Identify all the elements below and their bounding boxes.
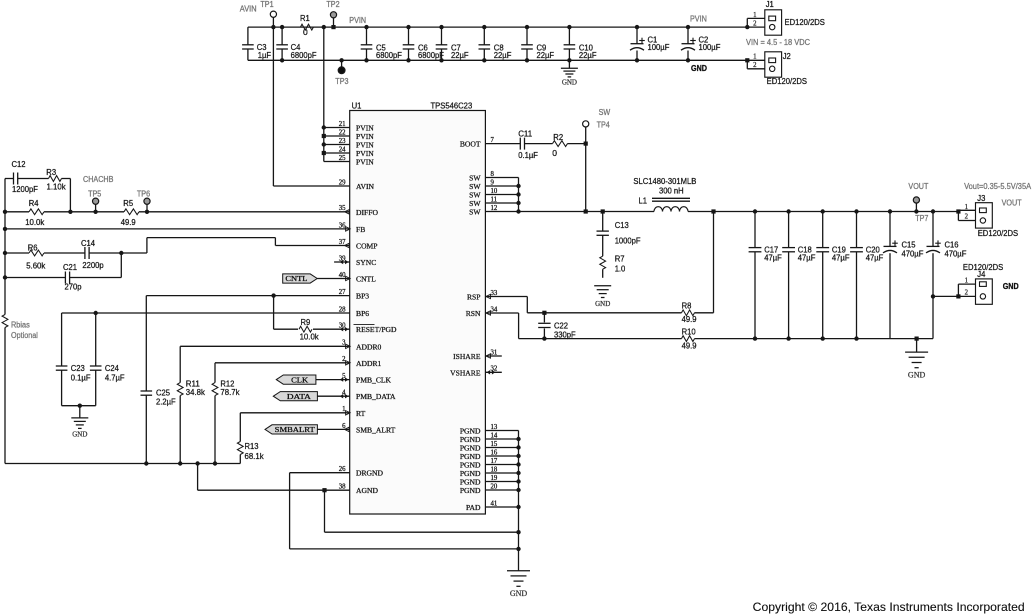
svg-text:2.2µF: 2.2µF [156, 397, 176, 407]
pin 31 ISHARE label [453, 349, 497, 361]
label SW [599, 108, 611, 117]
svg-text:R3: R3 [46, 167, 56, 177]
pin 16 PGND label [460, 449, 498, 461]
svg-text:R13: R13 [245, 441, 259, 451]
pin 24 PVIN label [339, 146, 375, 158]
wire DIFFO row [5, 210, 350, 214]
svg-text:22: 22 [339, 129, 346, 136]
svg-text:22µF: 22µF [579, 50, 597, 60]
wire SW rail [519, 211, 959, 213]
ground GND below R7 [594, 286, 611, 308]
resistor R9 [274, 296, 350, 342]
svg-text:C12: C12 [12, 159, 26, 169]
pin 15 PGND label [460, 441, 498, 453]
pin 11 SW label [469, 196, 497, 208]
pin output arrow [345, 427, 350, 431]
svg-text:PVIN: PVIN [349, 16, 366, 25]
svg-text:RT: RT [356, 409, 366, 418]
svg-text:100µF: 100µF [648, 42, 670, 52]
wire BP6 row [62, 311, 350, 366]
svg-text:J3: J3 [977, 193, 985, 203]
svg-text:2: 2 [753, 62, 757, 69]
capacitor C13 [597, 220, 641, 246]
pin 8 SW label [469, 171, 494, 183]
capacitor C8 [479, 25, 512, 63]
net flag DATA [273, 392, 349, 401]
capacitor C19 [816, 209, 849, 340]
svg-text:PGND: PGND [460, 486, 481, 495]
wire J3 pins [956, 209, 975, 220]
svg-text:Optional: Optional [11, 331, 38, 340]
wire C4 branch [280, 25, 284, 63]
pin 3 ADDR0 label [342, 340, 381, 352]
svg-text:8: 8 [491, 171, 495, 178]
svg-text:49.9: 49.9 [682, 340, 697, 350]
capacitor C4 [276, 42, 316, 60]
svg-text:Rbias: Rbias [11, 321, 30, 330]
svg-text:6800pF: 6800pF [376, 50, 402, 60]
inductor L1 [633, 176, 696, 211]
label TP7 [915, 214, 929, 223]
pin arrow RSP [486, 294, 491, 298]
svg-text:470µF: 470µF [945, 249, 967, 259]
svg-text:DRGND: DRGND [356, 469, 384, 478]
resistor R7 [600, 253, 626, 273]
capacitor C21 [63, 262, 82, 291]
test point TP3 [338, 58, 345, 74]
svg-text:300 nH: 300 nH [659, 186, 684, 196]
svg-text:22µF: 22µF [451, 50, 469, 60]
svg-text:470µF: 470µF [902, 249, 924, 259]
capacitor C10 [564, 25, 597, 63]
svg-text:TP3: TP3 [335, 77, 349, 86]
label VIN = 4.5 - 18 VDC [746, 38, 810, 47]
svg-text:VIN = 4.5 - 18 VDC: VIN = 4.5 - 18 VDC [746, 38, 810, 47]
svg-text:25: 25 [339, 155, 346, 162]
svg-text:J4: J4 [977, 269, 985, 279]
label J3 [977, 193, 985, 203]
svg-text:22µF: 22µF [537, 50, 555, 60]
svg-text:PMB_CLK: PMB_CLK [356, 376, 392, 385]
label Vout spec [964, 182, 1032, 191]
svg-text:RSP: RSP [467, 293, 481, 302]
svg-text:1: 1 [753, 12, 756, 19]
pin 9 SW label [469, 179, 494, 191]
svg-text:47µF: 47µF [832, 253, 850, 263]
pin 39 SYNC label [339, 255, 377, 267]
pin 33 RSP label [467, 290, 498, 302]
label TP4 [597, 121, 611, 130]
pin 6 SMB_ALRT label [342, 423, 395, 435]
capacitor C17 [749, 209, 782, 340]
pin 34 RSN label [466, 306, 498, 318]
ground GND main [507, 571, 530, 598]
pin 23 PVIN label [339, 138, 375, 150]
svg-text:2: 2 [965, 289, 969, 296]
label GND J4 [1003, 282, 1019, 291]
test point TP6 [144, 198, 150, 212]
svg-text:GND: GND [1003, 282, 1019, 291]
svg-text:R7: R7 [615, 253, 625, 263]
pin 28 BP6 label [339, 306, 370, 318]
svg-text:23: 23 [339, 138, 346, 145]
pin bidir arrow [340, 377, 349, 381]
svg-text:1.0: 1.0 [615, 263, 626, 273]
svg-text:CNTL: CNTL [356, 275, 376, 284]
svg-text:C24: C24 [105, 363, 119, 373]
label TP1 [260, 0, 274, 9]
pin 31 ISHARE stub [485, 355, 501, 357]
resistor R11 [177, 378, 205, 463]
capacitor C22 [538, 313, 576, 340]
svg-text:ADDR1: ADDR1 [356, 359, 382, 368]
wire left vertical rail [3, 179, 7, 464]
pin number 1 J2 [753, 54, 756, 61]
svg-text:VOUT: VOUT [908, 182, 928, 191]
resistor R3 [46, 167, 66, 192]
svg-text:10.0k: 10.0k [300, 331, 320, 341]
svg-text:TP5: TP5 [88, 190, 102, 199]
svg-text:1.10k: 1.10k [47, 182, 67, 192]
pin number 2 J2 [753, 62, 757, 69]
pin number 1 J4 [965, 278, 968, 285]
svg-text:7: 7 [491, 137, 495, 144]
svg-text:TP6: TP6 [137, 190, 151, 199]
svg-text:12: 12 [491, 205, 498, 212]
svg-text:11: 11 [491, 196, 498, 203]
svg-text:RESET/PGD: RESET/PGD [356, 325, 397, 334]
pin arrow RSN [486, 311, 491, 315]
svg-text:TP1: TP1 [260, 0, 274, 9]
capacitor C16 (polarized) [926, 209, 966, 338]
wire PVIN bus [322, 25, 350, 162]
svg-text:DIFFO: DIFFO [356, 208, 378, 217]
svg-text:R1: R1 [300, 13, 310, 23]
wire ADDR0 row [180, 346, 350, 382]
svg-text:SYNC: SYNC [356, 258, 376, 267]
svg-text:Copyright © 2016, Texas Instru: Copyright © 2016, Texas Instruments Inco… [753, 601, 1025, 614]
pin number 2 J1 [753, 20, 757, 27]
pin input arrow [346, 361, 351, 365]
svg-text:SMB_ALRT: SMB_ALRT [356, 425, 396, 434]
svg-text:22µF: 22µF [494, 50, 512, 60]
svg-text:RSN: RSN [466, 309, 481, 318]
svg-text:ED120/2DS: ED120/2DS [978, 228, 1019, 238]
svg-text:COMP: COMP [356, 242, 378, 251]
pin input arrow [346, 276, 351, 280]
pin number 1 J1 [753, 12, 756, 19]
svg-text:BP6: BP6 [356, 309, 369, 318]
wire AVIN/PVIN top input rail [248, 26, 765, 28]
svg-text:47µF: 47µF [764, 253, 782, 263]
svg-text:47µF: 47µF [866, 253, 884, 263]
pin arrow VSHARE [487, 370, 496, 374]
svg-text:BP3: BP3 [356, 292, 369, 301]
svg-text:Vout=0.35-5.5V/35A: Vout=0.35-5.5V/35A [964, 182, 1032, 191]
wire BOOT pin 7 [485, 143, 520, 145]
pin 25 PVIN label [339, 155, 375, 167]
connector J1 [765, 10, 782, 35]
pin 38 AGND label [339, 484, 379, 496]
label U1 [352, 101, 362, 111]
svg-text:FB: FB [356, 225, 365, 234]
ground input GND symbol [561, 60, 578, 86]
pin input arrow [346, 411, 351, 415]
wire C12 R3 row [5, 179, 70, 212]
pin bidir arrow [340, 260, 349, 264]
pin 4 PMB_DATA label [342, 390, 396, 402]
pin 39 SYNC stub [334, 261, 350, 263]
wire FB row [5, 228, 350, 230]
svg-text:ADDR0: ADDR0 [356, 342, 382, 351]
svg-text:U1: U1 [352, 101, 362, 111]
pin 19 PGND label [460, 475, 498, 487]
pin 26 DRGND label [339, 466, 384, 478]
resistor R12 [212, 378, 240, 463]
resistor R6 [26, 242, 46, 270]
wire GND bottom input rail [248, 59, 765, 61]
pin 37 COMP label [339, 239, 378, 251]
svg-text:ISHARE: ISHARE [453, 352, 481, 361]
svg-text:6800pF: 6800pF [418, 50, 444, 60]
svg-text:PMB_DATA: PMB_DATA [356, 392, 396, 401]
svg-text:AVIN: AVIN [240, 5, 257, 14]
svg-text:C14: C14 [81, 238, 95, 248]
label TP6 [137, 190, 151, 199]
svg-text:1200pF: 1200pF [12, 184, 38, 194]
svg-text:BOOT: BOOT [460, 140, 481, 149]
svg-text:1: 1 [753, 54, 756, 61]
svg-text:J1: J1 [766, 0, 774, 9]
svg-text:TP4: TP4 [597, 121, 611, 130]
svg-text:R2: R2 [553, 132, 563, 142]
capacitor C2 (polarized) [681, 25, 720, 63]
pin 12 SW label [469, 205, 498, 217]
resistor R5 [121, 198, 139, 227]
svg-text:1000pF: 1000pF [615, 236, 641, 246]
svg-text:L1: L1 [639, 196, 648, 206]
label copyright [753, 601, 1025, 614]
svg-text:4.7µF: 4.7µF [105, 372, 125, 382]
svg-text:0: 0 [303, 27, 308, 37]
wire C13 R7 snubber [601, 209, 605, 277]
svg-text:TP7: TP7 [915, 214, 929, 223]
ground GND output [905, 337, 928, 380]
wire AGND rail [5, 461, 240, 465]
svg-text:1: 1 [965, 278, 968, 285]
pin arrow ISHARE [486, 354, 491, 358]
label GND right [691, 64, 707, 73]
pin 29 AVIN label [339, 179, 375, 191]
svg-text:VOUT: VOUT [1002, 198, 1022, 207]
svg-text:2200p: 2200p [82, 260, 104, 270]
label J2 [783, 51, 791, 61]
svg-text:AGND: AGND [356, 486, 378, 495]
wire RSN pin 34 [485, 313, 681, 341]
svg-text:PAD: PAD [466, 503, 481, 512]
svg-text:1: 1 [965, 204, 968, 211]
svg-text:SW: SW [599, 108, 611, 117]
svg-text:68.1k: 68.1k [245, 451, 265, 461]
pin output arrow [345, 210, 350, 214]
svg-text:GND: GND [72, 431, 87, 439]
capacitor C20 [850, 209, 883, 340]
resistor Rbias [2, 315, 38, 341]
svg-text:ED120/2DS: ED120/2DS [785, 17, 826, 27]
connector J4 [976, 279, 993, 304]
svg-text:GND: GND [595, 300, 610, 308]
wire AGND [198, 464, 519, 533]
svg-text:1µF: 1µF [258, 50, 271, 60]
wire left edge with C3 [247, 27, 249, 60]
capacitor C24 [90, 313, 125, 406]
svg-text:24: 24 [339, 146, 346, 153]
resistor R10 [682, 326, 934, 350]
wire J4 pins [931, 284, 976, 298]
wire AVIN to pin 29 [273, 27, 349, 186]
label PVIN right [690, 14, 707, 23]
wire BP3 row [146, 293, 349, 391]
op-amp U1 TPS546C23 body [350, 111, 486, 515]
pin 17 PGND label [460, 458, 498, 470]
svg-text:J2: J2 [783, 51, 791, 61]
svg-text:78.7k: 78.7k [220, 387, 240, 397]
label ED120/2DS J4 [963, 262, 1004, 272]
svg-text:SMBALRT: SMBALRT [275, 425, 316, 434]
svg-text:R5: R5 [123, 198, 133, 208]
pin 1 RT label [342, 406, 366, 418]
capacitor C25 [141, 387, 176, 463]
resistor R8 [682, 209, 716, 324]
capacitor C9 [521, 25, 554, 63]
svg-text:R10: R10 [682, 326, 696, 336]
pin bidir arrow [340, 327, 349, 331]
svg-text:GND: GND [562, 78, 577, 86]
capacitor C15 (polarized) [883, 209, 923, 338]
pin 13 PGND label [460, 424, 498, 436]
resistor R2 [525, 132, 586, 158]
svg-text:R8: R8 [682, 301, 692, 311]
pin 21 PVIN label [339, 121, 375, 133]
label VOUT top [908, 182, 928, 191]
capacitor C18 [782, 209, 815, 340]
wire PGND bus [485, 431, 520, 571]
capacitor C23 [56, 363, 91, 406]
svg-text:C21: C21 [63, 262, 77, 272]
pin 22 PVIN label [339, 129, 375, 141]
svg-text:10: 10 [491, 188, 498, 195]
svg-text:0.1µF: 0.1µF [518, 150, 538, 160]
svg-text:TP2: TP2 [326, 0, 340, 9]
svg-text:2: 2 [753, 20, 757, 27]
svg-text:GND: GND [691, 64, 707, 73]
capacitor C6 [403, 25, 444, 63]
connector J2 [765, 52, 782, 77]
svg-text:R4: R4 [29, 198, 39, 208]
capacitor C11 [518, 129, 538, 160]
pin 32 VSHARE stub [485, 371, 501, 373]
pin 14 PGND label [460, 432, 498, 444]
connector J3 [976, 203, 993, 228]
pin 5 PMB_CLK label [342, 373, 391, 385]
pin 35 DIFFO label [339, 205, 379, 217]
svg-text:ED120/2DS: ED120/2DS [767, 76, 808, 86]
capacitor C12 [12, 159, 38, 194]
pin number 2 J3 [965, 213, 969, 220]
svg-text:R6: R6 [28, 242, 38, 252]
svg-text:9: 9 [491, 179, 495, 186]
svg-text:PVIN: PVIN [356, 158, 374, 167]
overline RESET [354, 323, 375, 325]
label J4 [977, 269, 985, 279]
wire C23 C24 join [62, 404, 96, 408]
test point TP7 [913, 197, 919, 214]
label TPS546C23 [431, 101, 473, 111]
label TP5 [88, 190, 102, 199]
label ED120/2DS J3 [978, 228, 1019, 238]
svg-text:47µF: 47µF [798, 253, 816, 263]
net flag SMBALRT [265, 425, 350, 434]
wire RT row [240, 413, 349, 442]
svg-text:100µF: 100µF [699, 42, 721, 52]
wire C21 row [5, 253, 121, 278]
svg-text:VSHARE: VSHARE [450, 368, 481, 377]
svg-text:CNTL: CNTL [285, 274, 308, 283]
label PVIN [349, 16, 366, 25]
label VOUT J3 [1002, 198, 1022, 207]
pin number 2 J4 [965, 289, 969, 296]
svg-text:TPS546C23: TPS546C23 [431, 101, 473, 111]
svg-text:2: 2 [965, 213, 969, 220]
wire DRGND [290, 473, 519, 549]
capacitor C5 [361, 25, 402, 63]
pin 30 RESET/PGD label [339, 323, 397, 335]
resistor R13 [237, 441, 264, 464]
net flag CLK [276, 375, 349, 384]
pin 20 PGND label [460, 483, 498, 495]
label TP2 [326, 0, 340, 9]
capacitor C1 (polarized) [630, 25, 669, 63]
capacitor C3 [242, 42, 271, 60]
svg-text:CHACHB: CHACHB [83, 175, 113, 184]
pin 27 BP3 label [339, 289, 370, 301]
pin number 1 J3 [965, 204, 968, 211]
svg-text:270p: 270p [65, 282, 82, 292]
svg-text:C13: C13 [615, 220, 629, 230]
svg-text:AVIN: AVIN [356, 182, 375, 191]
pin input arrow [346, 227, 351, 231]
wire J2 pin2 elbow [745, 58, 765, 69]
svg-text:49.9: 49.9 [121, 217, 136, 227]
wire ADDR1 row [215, 363, 350, 383]
svg-text:29: 29 [339, 179, 346, 186]
svg-text:CLK: CLK [291, 375, 309, 384]
svg-text:5.60k: 5.60k [26, 261, 46, 271]
svg-text:SW: SW [469, 208, 481, 217]
wire RSP pin 33 [485, 297, 681, 315]
pin output arrow [345, 243, 350, 247]
svg-text:49.9: 49.9 [682, 314, 697, 324]
pin 41 PAD label [466, 500, 497, 512]
svg-text:GND: GND [510, 589, 528, 598]
label ED120/2DS J2 [767, 76, 808, 86]
svg-text:GND: GND [908, 371, 926, 380]
svg-text:C11: C11 [518, 129, 532, 139]
pin 18 PGND label [460, 466, 498, 478]
test point TP1 [270, 11, 276, 29]
svg-text:0.1µF: 0.1µF [71, 372, 91, 382]
pin 40 CNTL label [339, 272, 376, 284]
